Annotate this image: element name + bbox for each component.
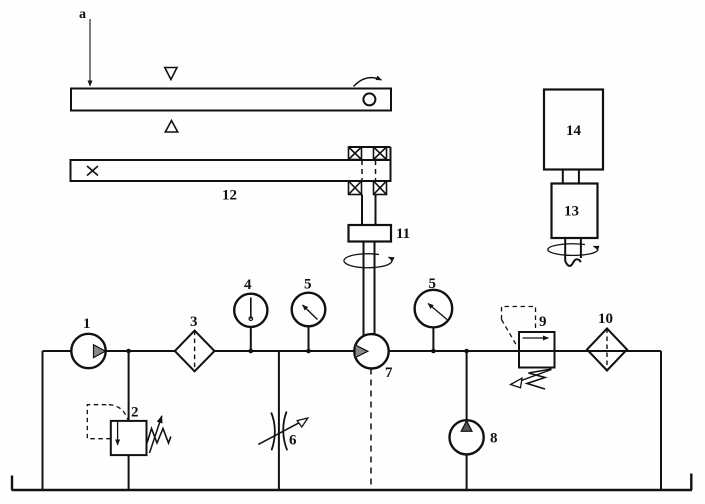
svg-text:4: 4 xyxy=(244,277,252,293)
spindle shaft down to motor 7 xyxy=(364,242,375,336)
tank bottom xyxy=(12,489,693,491)
shaft hidden in arm (dashed) xyxy=(362,160,376,181)
svg-text:5: 5 xyxy=(429,276,437,292)
relief valve 2 xyxy=(87,405,171,456)
svg-text:11: 11 xyxy=(396,226,410,242)
svg-text:7: 7 xyxy=(385,365,393,381)
drain line from motor 7 (dashed) xyxy=(370,369,372,491)
pump 8 branch line xyxy=(466,351,468,490)
output shaft below 13 xyxy=(565,238,581,266)
junction dot gauge 5 right xyxy=(431,349,436,354)
x mark on arm 12 xyxy=(87,166,98,176)
coupling 11 xyxy=(349,225,392,242)
bearing top-left xyxy=(349,147,362,160)
svg-text:12: 12 xyxy=(222,188,237,204)
svg-text:5: 5 xyxy=(304,277,312,293)
pump 8 xyxy=(450,420,498,454)
force arrow a xyxy=(79,7,90,86)
gauge 5 (left) xyxy=(292,277,326,352)
svg-text:10: 10 xyxy=(598,311,613,327)
filter 3 xyxy=(175,314,215,371)
svg-text:6: 6 xyxy=(289,433,297,449)
svg-text:9: 9 xyxy=(539,314,547,330)
motor 7 xyxy=(354,334,388,368)
tank right lip xyxy=(690,474,692,491)
coupling shaft 14-13 xyxy=(563,170,579,184)
svg-text:14: 14 xyxy=(566,123,582,139)
main pressure line xyxy=(43,350,662,352)
gauge 4 xyxy=(234,277,267,351)
bearing bottom-left xyxy=(349,181,362,195)
bearing block right edge xyxy=(390,147,392,181)
shaft between bearing and coupling 11 xyxy=(362,195,376,226)
beam (upper balance arm) xyxy=(71,89,391,111)
nozzle triangle down xyxy=(165,68,177,80)
bearing top-right xyxy=(374,147,387,160)
arm 12 (lower arm) xyxy=(71,160,391,181)
machine body 14 xyxy=(544,90,603,170)
junction dot pump 8 branch xyxy=(464,349,469,354)
throttle branch line xyxy=(278,351,280,490)
tank left lip xyxy=(11,476,13,491)
bearing bottom-right xyxy=(374,181,387,195)
left return riser xyxy=(42,351,44,490)
throttle valve 6 xyxy=(258,412,308,451)
svg-text:13: 13 xyxy=(564,204,579,220)
svg-text:2: 2 xyxy=(131,405,139,421)
right return riser xyxy=(660,351,662,490)
pump 1 xyxy=(71,334,105,368)
machine body 13 xyxy=(552,184,598,239)
bearing block top cap xyxy=(349,146,391,148)
air filter 10 xyxy=(587,311,627,371)
junction dot gauge 5 left xyxy=(306,349,311,354)
svg-text:8: 8 xyxy=(490,431,498,447)
svg-text:3: 3 xyxy=(190,314,198,330)
junction dot gauge 4 xyxy=(249,349,254,354)
svg-text:a: a xyxy=(79,7,86,22)
rotation ellipse on output shaft xyxy=(548,244,598,256)
gauge 5 (right) xyxy=(415,276,453,351)
pivot hole circle on beam xyxy=(363,93,375,105)
svg-text:1: 1 xyxy=(83,316,91,332)
nozzle triangle up xyxy=(165,121,177,133)
rotation ellipse on spindle xyxy=(344,254,392,268)
junction dot at relief branch xyxy=(126,349,131,354)
rotation arrow over beam end xyxy=(354,78,382,87)
relief branch line xyxy=(128,351,130,421)
unloading valve 9 xyxy=(502,307,555,390)
